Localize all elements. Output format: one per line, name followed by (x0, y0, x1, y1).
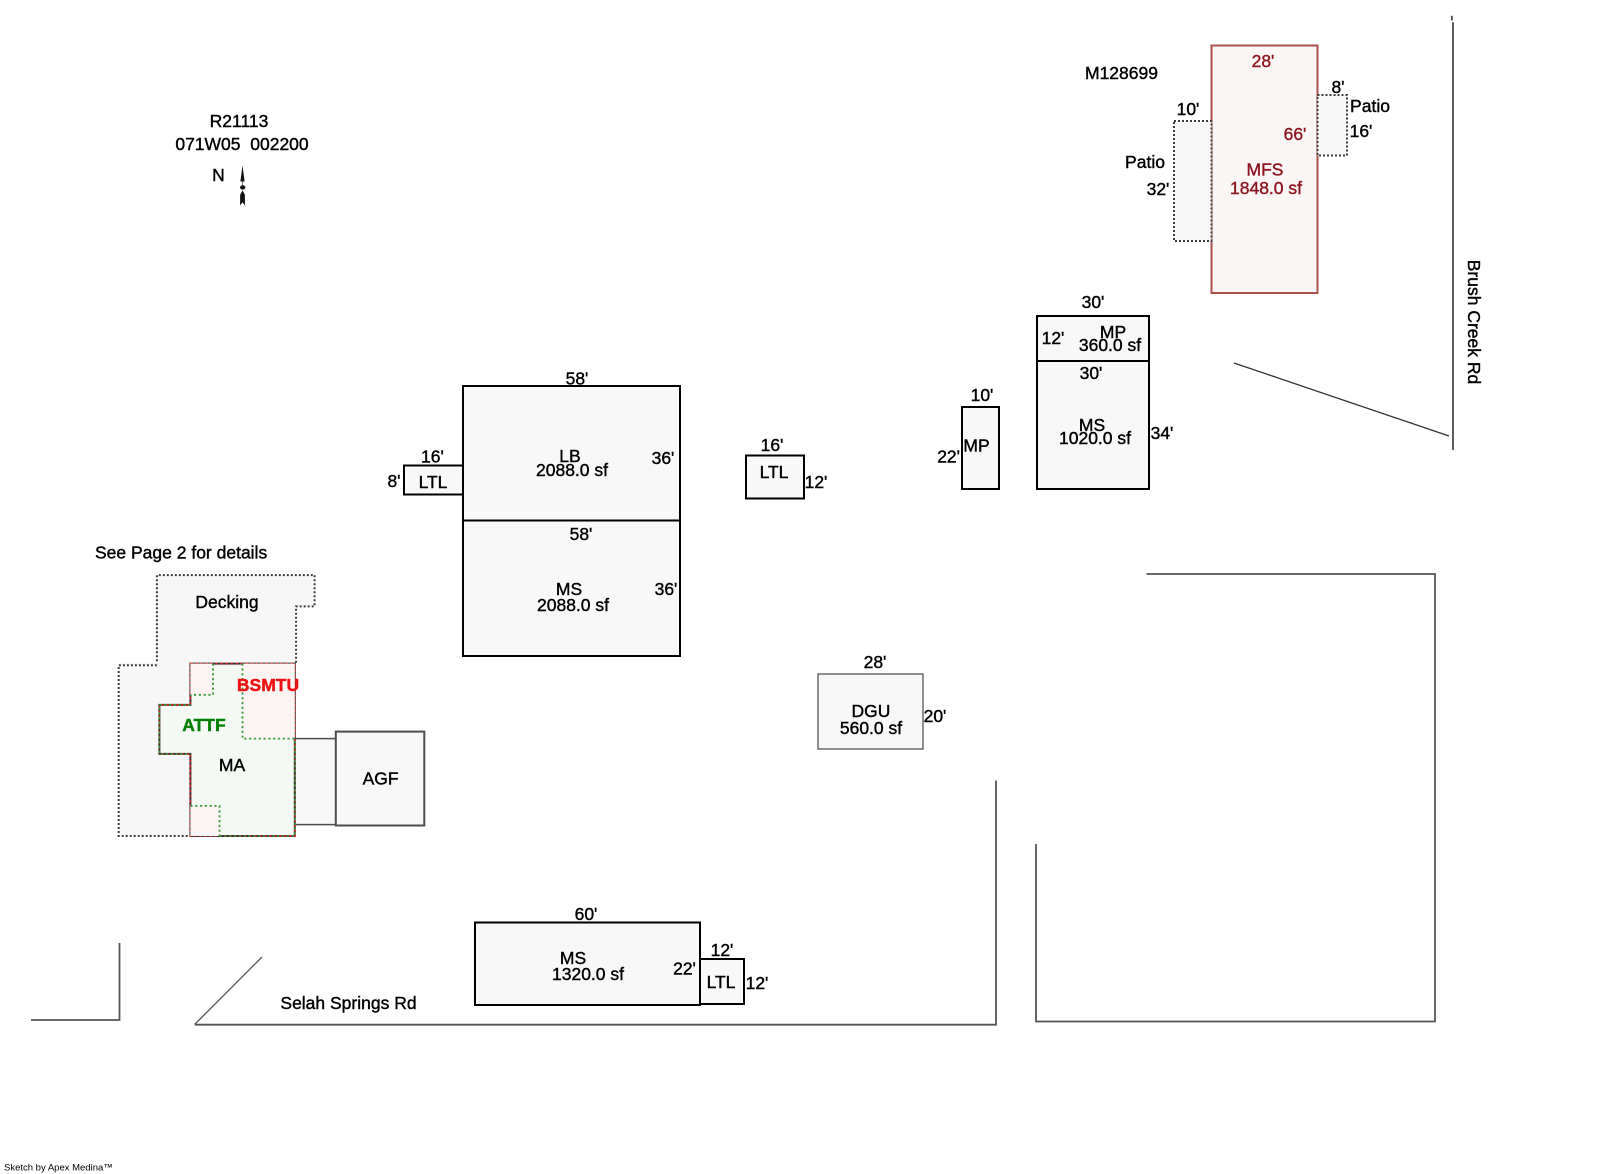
svg-text:22': 22' (937, 447, 960, 467)
LTL attached (404, 466, 463, 495)
svg-text:2088.0 sf: 2088.0 sf (536, 460, 608, 480)
svg-text:28': 28' (864, 652, 887, 672)
MP narrow (962, 407, 999, 489)
svg-text:36': 36' (652, 448, 675, 468)
svg-text:30': 30' (1082, 292, 1105, 312)
LB/MS center building (463, 386, 680, 656)
svg-text:2088.0 sf: 2088.0 sf (537, 595, 609, 615)
svg-text:12': 12' (805, 472, 828, 492)
svg-text:R21113: R21113 (210, 111, 269, 131)
svg-text:Selah Springs Rd: Selah Springs Rd (280, 993, 416, 1013)
svg-text:Decking: Decking (195, 592, 258, 612)
svg-text:16': 16' (761, 435, 784, 455)
svg-text:1848.0 sf: 1848.0 sf (1230, 178, 1302, 198)
svg-text:Sketch by Apex Medina™: Sketch by Apex Medina™ (4, 1162, 113, 1173)
svg-text:Patio: Patio (1125, 152, 1165, 172)
svg-text:Patio: Patio (1350, 96, 1390, 116)
svg-text:LTL: LTL (760, 462, 789, 482)
compass (240, 166, 245, 206)
svg-text:560.0 sf: 560.0 sf (840, 718, 902, 738)
free LTL (746, 456, 804, 499)
svg-text:MA: MA (219, 755, 246, 775)
patio left (1174, 121, 1212, 241)
svg-text:66': 66' (1284, 124, 1307, 144)
bottom LTL (700, 959, 744, 1004)
garage AGF (336, 732, 425, 826)
decking top region (157, 575, 315, 665)
roads / lines (1451, 16, 1453, 21)
green dotted on MA lower-right + bottom edge (220, 739, 295, 836)
svg-text:MP: MP (963, 436, 989, 456)
svg-text:360.0 sf: 360.0 sf (1079, 335, 1141, 355)
svg-text:MFS: MFS (1247, 160, 1284, 180)
svg-text:58': 58' (570, 524, 593, 544)
svg-text:M128699: M128699 (1085, 63, 1158, 83)
svg-text:16': 16' (1350, 121, 1373, 141)
BSMTU pink region (243, 664, 295, 739)
svg-text:LTL: LTL (707, 972, 736, 992)
svg-text:10': 10' (1177, 99, 1200, 119)
svg-text:071W05 002200: 071W05 002200 (175, 134, 309, 154)
svg-text:60': 60' (575, 904, 598, 924)
svg-text:Brush Creek Rd: Brush Creek Rd (1464, 260, 1484, 385)
MP/MS middle building (1037, 316, 1149, 489)
svg-text:See Page 2 for details: See Page 2 for details (95, 543, 267, 563)
svg-text:8': 8' (387, 471, 400, 491)
patio right (1318, 95, 1348, 156)
small pink rect top-left (190, 664, 213, 695)
svg-text:BSMTU: BSMTU (237, 675, 299, 695)
svg-text:22': 22' (673, 959, 696, 979)
bottom MS (475, 923, 700, 1006)
svg-text:LTL: LTL (419, 472, 448, 492)
svg-text:34': 34' (1151, 423, 1174, 443)
svg-text:1320.0 sf: 1320.0 sf (552, 964, 624, 984)
svg-text:12': 12' (1042, 328, 1065, 348)
svg-text:16': 16' (421, 447, 444, 467)
svg-text:58': 58' (566, 369, 589, 389)
svg-text:1020.0 sf: 1020.0 sf (1059, 428, 1131, 448)
green dotted on bump (ATTF) (159, 705, 190, 754)
MFS building (1212, 46, 1318, 294)
svg-text:32': 32' (1147, 179, 1170, 199)
svg-text:10': 10' (971, 385, 994, 405)
svg-text:28': 28' (1252, 51, 1275, 71)
svg-text:N: N (212, 165, 225, 185)
svg-text:30': 30' (1080, 363, 1103, 383)
svg-text:ATTF: ATTF (182, 715, 226, 735)
svg-text:12': 12' (746, 973, 769, 993)
decking left region (119, 663, 191, 836)
svg-text:AGF: AGF (363, 769, 399, 789)
svg-text:8': 8' (1331, 77, 1344, 97)
DGU (818, 674, 923, 749)
svg-text:20': 20' (924, 706, 947, 726)
small pink rect bottom (190, 806, 219, 836)
svg-text:12': 12' (711, 940, 734, 960)
main area MA polygon (159, 664, 294, 836)
svg-text:36': 36' (655, 579, 678, 599)
connector MA-AGF (295, 739, 336, 825)
